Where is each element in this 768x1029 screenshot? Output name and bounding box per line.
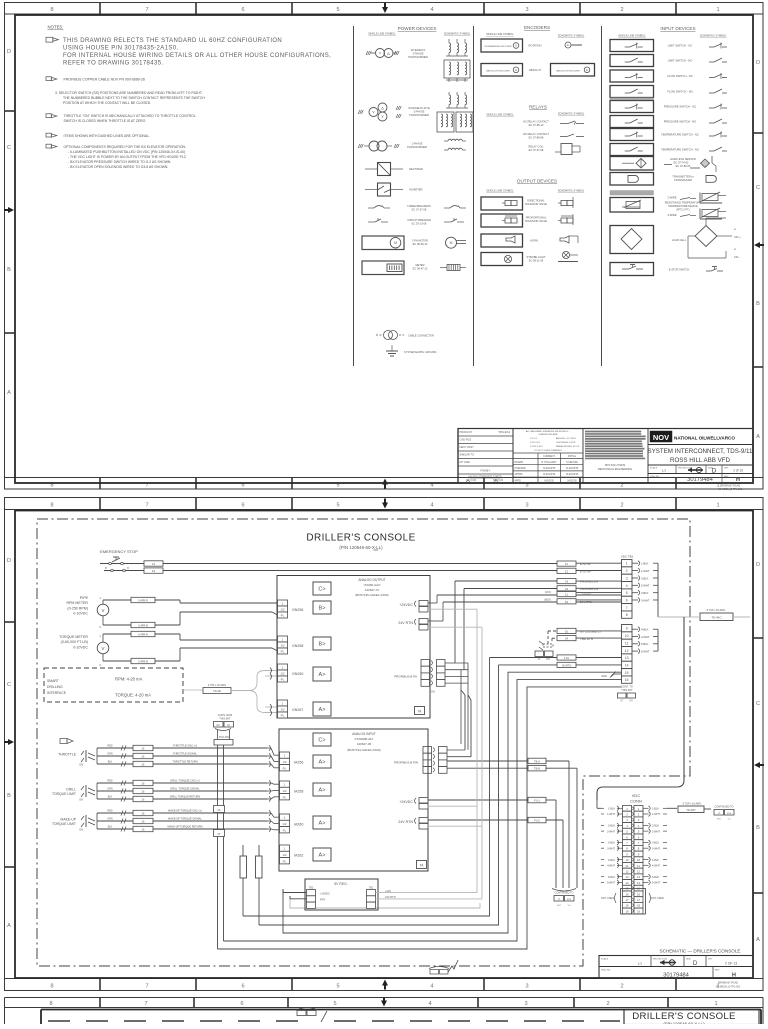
svg-text:CIRCUIT BREAKER: CIRCUIT BREAKER	[407, 218, 431, 222]
svg-text:2: 2	[626, 569, 628, 573]
svg-text:BX CLOSED LT: BX CLOSED LT	[580, 629, 601, 633]
svg-text:1-WHT: 1-WHT	[652, 813, 660, 816]
svg-text:A>: A>	[319, 707, 326, 713]
svg-text:SHT: SHT	[557, 905, 562, 907]
svg-text:10: 10	[565, 629, 569, 633]
svg-text:7: 7	[144, 1001, 147, 1007]
svg-text:EC 08-11-08: EC 08-11-08	[529, 259, 544, 263]
svg-text:1/2: 1/2	[280, 672, 285, 676]
svg-text:REV: REV	[724, 476, 729, 478]
svg-text:12: 12	[625, 649, 629, 653]
svg-text:11: 11	[625, 641, 629, 645]
svg-text:THIS DRAWING RELECTS THE S: THIS DRAWING RELECTS THE STANDARD UL 60H…	[63, 38, 282, 44]
svg-text:5-WHT: 5-WHT	[652, 882, 660, 885]
svg-text:ITEMS SHOWN WITH DASHED LI: ITEMS SHOWN WITH DASHED LINES ARE OPTION…	[64, 134, 151, 138]
svg-text:BLK: BLK	[108, 761, 113, 764]
svg-text:PL: PL	[283, 766, 287, 770]
svg-text:TD-4D: TD-4D	[213, 689, 221, 693]
svg-text:EC 09-47-12: EC 09-47-12	[413, 267, 428, 271]
svg-text:12: 12	[637, 870, 641, 874]
svg-text:+24VDC: +24VDC	[399, 800, 413, 804]
svg-text:1: 1	[716, 7, 719, 13]
svg-text:ABSOLUTE ENCODER: ABSOLUTE ENCODER	[486, 70, 510, 73]
svg-text:E-STOP: E-STOP	[580, 562, 591, 566]
svg-text:M: M	[450, 241, 453, 245]
svg-text:PRESSURE SWITCH - NC: PRESSURE SWITCH - NC	[664, 105, 696, 109]
svg-text:Y: Y	[381, 114, 384, 119]
svg-text:DRILL TORQUE SIGNAL: DRILL TORQUE SIGNAL	[170, 786, 200, 790]
svg-text:11: 11	[637, 864, 640, 868]
svg-text:THREE BREAKERS: THREE BREAKERS	[407, 204, 431, 208]
svg-text:PL: PL	[281, 614, 285, 618]
svg-text:3-BLK: 3-BLK	[652, 842, 659, 845]
svg-text:8: 8	[50, 7, 53, 13]
svg-text:1-WHT: 1-WHT	[607, 813, 615, 816]
svg-text:PL: PL	[283, 859, 287, 863]
svg-text:PROFIBUS B PA: PROFIBUS B PA	[394, 675, 417, 679]
svg-text:PDS SOLUTIONS: PDS SOLUTIONS	[605, 464, 626, 467]
svg-text:10: 10	[637, 858, 641, 862]
svg-text:4-BLK: 4-BLK	[608, 859, 615, 862]
svg-text:5V REG.: 5V REG.	[334, 882, 347, 886]
svg-text:4-WHT: 4-WHT	[607, 865, 615, 868]
svg-text:4: 4	[430, 984, 433, 990]
svg-text:5 TSP x 18 AWG: 5 TSP x 18 AWG	[683, 803, 702, 806]
svg-text:11: 11	[565, 593, 568, 597]
svg-text:3: 3	[525, 984, 528, 990]
svg-text:THIS SHT: THIS SHT	[219, 718, 231, 721]
svg-text:PL: PL	[281, 714, 285, 718]
svg-text:R. HOLLADAY: R. HOLLADAY	[541, 461, 556, 464]
svg-text:5-WHT: 5-WHT	[641, 649, 650, 653]
svg-text:THROTTLE "ON" SWITCH IS ME: THROTTLE "ON" SWITCH IS MECHANICALLY ATT…	[64, 114, 197, 118]
svg-text:5-WHT: 5-WHT	[607, 882, 615, 885]
svg-text:+24VDC: +24VDC	[580, 593, 592, 597]
svg-text:B: B	[756, 825, 760, 831]
svg-text:DRILL: DRILL	[66, 787, 76, 791]
svg-text:FDS: FDS	[727, 813, 732, 815]
svg-text:- BX ELEVATOR PRESSURE SWI: - BX ELEVATOR PRESSURE SWITCH WIRED TO G…	[68, 160, 171, 164]
svg-text:3-BLK: 3-BLK	[641, 591, 649, 595]
svg-text:2T: 2T	[217, 832, 220, 836]
svg-text:DO NOT SCALE DRAWING: DO NOT SCALE DRAWING	[534, 449, 562, 452]
svg-text:- BX ELEVATOR OPEN SOLENOI: - BX ELEVATOR OPEN SOLENOID WIRED TO G3.…	[68, 165, 168, 169]
svg-text:S.CEKODA: S.CEKODA	[566, 461, 578, 464]
svg-text:GRN: GRN	[107, 818, 113, 821]
svg-text:OA: OA	[216, 724, 220, 727]
svg-text:PL: PL	[283, 795, 287, 799]
svg-text:EC 07-58-10: EC 07-58-10	[529, 123, 544, 127]
svg-text:+10VDC: +10VDC	[320, 892, 330, 896]
svg-text:A: A	[7, 390, 11, 396]
svg-text:RTN: RTN	[320, 898, 325, 902]
svg-text:DRILLER'S CONSOLE: DRILLER'S CONSOLE	[306, 533, 415, 544]
svg-text:PIPE: PIPE	[80, 596, 89, 600]
svg-text:SWITCH IS CLOSED WHEN THRO: SWITCH IS CLOSED WHEN THROTTLE IS AT ZER…	[64, 119, 147, 123]
svg-text:SHT: SHT	[724, 468, 729, 470]
svg-text:GN256: GN256	[292, 608, 303, 612]
svg-text:18: 18	[637, 904, 641, 908]
svg-text:IA258: IA258	[294, 790, 303, 794]
svg-text:REV: REV	[715, 970, 720, 972]
svg-text:1/2: 1/2	[280, 708, 285, 712]
svg-text:TDS-9/11: TDS-9/11	[498, 430, 510, 434]
svg-text:B>: B>	[319, 642, 326, 648]
svg-text:EC 07-37-08: EC 07-37-08	[529, 148, 544, 152]
svg-text:(RTD 2 PT): (RTD 2 PT)	[676, 208, 689, 212]
svg-text:EC 07-27-08: EC 07-27-08	[412, 208, 427, 212]
svg-text:A: A	[7, 923, 11, 929]
svg-text:EC 07-89-06: EC 07-89-06	[676, 164, 691, 168]
svg-text:D: D	[756, 562, 760, 568]
svg-text:NOT USED: NOT USED	[601, 897, 614, 900]
svg-text:18: 18	[625, 904, 629, 908]
svg-text:SCHEMATIC SYMBOL: SCHEMATIC SYMBOL	[558, 189, 585, 193]
svg-text:Δ: Δ	[381, 105, 384, 110]
svg-text:14: 14	[625, 881, 629, 885]
svg-text:TEMPERATURE SWITCH - NC: TEMPERATURE SWITCH - NC	[661, 133, 699, 137]
svg-text:PRODUCT: PRODUCT	[460, 430, 473, 434]
svg-text:VDC: VDC	[632, 793, 641, 798]
svg-text:USING HOUSE P/N 30178435-2A: USING HOUSE P/N 30178435-2A1S0.	[63, 46, 179, 52]
svg-text:DIRECTIONAL: DIRECTIONAL	[527, 199, 545, 203]
svg-text:FINISH: FINISH	[480, 469, 489, 473]
svg-text:CONN: CONN	[630, 799, 642, 804]
svg-text:6: 6	[626, 598, 628, 602]
svg-text:Δ: Δ	[387, 51, 390, 56]
svg-text:1/2: 1/2	[282, 760, 287, 764]
svg-text:5: 5	[336, 503, 339, 509]
svg-text:D: D	[756, 60, 760, 66]
svg-text:TORQUE: 4-20 mA: TORQUE: 4-20 mA	[115, 693, 151, 698]
svg-text:IA256: IA256	[294, 761, 303, 765]
svg-text:(P/N 120546-60-X-LL): (P/N 120546-60-X-LL)	[339, 545, 383, 550]
svg-text:5: 5	[333, 1001, 336, 1007]
svg-text:RELAY COIL: RELAY COIL	[528, 145, 544, 149]
svg-text:13: 13	[625, 875, 629, 879]
svg-text:7: 7	[145, 7, 148, 13]
svg-text:3-WHT: 3-WHT	[641, 598, 650, 602]
svg-text:5-BLK: 5-BLK	[652, 876, 659, 879]
svg-text:C: C	[756, 701, 760, 707]
svg-text:TORQUE METER: TORQUE METER	[59, 635, 88, 639]
svg-text:M: M	[394, 241, 397, 245]
svg-text:MY LINE: MY LINE	[460, 460, 471, 464]
svg-text:EC 07-74-02: EC 07-74-02	[674, 161, 689, 165]
svg-text:(0-60,000 FT-LB): (0-60,000 FT-LB)	[61, 640, 88, 644]
svg-text:TB1: TB1	[369, 887, 374, 890]
svg-text:POWER DEVICES: POWER DEVICES	[398, 26, 437, 31]
svg-text:10: 10	[625, 634, 629, 638]
svg-text:CONTINUED TO: CONTINUED TO	[715, 806, 734, 809]
svg-text:B: B	[7, 793, 11, 799]
svg-text:7: 7	[145, 984, 148, 990]
svg-text:VDC TB1: VDC TB1	[621, 555, 634, 559]
svg-text:1-BLK: 1-BLK	[641, 562, 649, 566]
svg-text:2A: 2A	[227, 724, 230, 727]
svg-text:16: 16	[637, 892, 641, 896]
svg-text:3-WHT: 3-WHT	[652, 847, 660, 850]
svg-text:THICKNESS 0.STR: THICKNESS 0.STR	[556, 442, 576, 444]
svg-text:2A: 2A	[217, 808, 220, 812]
svg-text:E-STOP SWITCH: E-STOP SWITCH	[669, 268, 690, 272]
svg-text:H: H	[732, 973, 736, 979]
svg-text:SCHEMATIC SYMBOL: SCHEMATIC SYMBOL	[700, 34, 727, 38]
svg-text:ON: ON	[79, 763, 83, 767]
svg-text:DRILL TORQUE CNC (+): DRILL TORQUE CNC (+)	[170, 778, 199, 782]
svg-text:RESISTANCE TEMPERATURE: RESISTANCE TEMPERATURE	[665, 201, 702, 205]
svg-text:DWG NO.: DWG NO.	[650, 476, 660, 478]
svg-text:RED: RED	[107, 745, 112, 748]
svg-text:SINGLE LINE SYMBOL: SINGLE LINE SYMBOL	[618, 34, 646, 38]
svg-text:INVERTER: INVERTER	[409, 188, 422, 192]
svg-text:B: B	[7, 267, 11, 273]
svg-text:D: D	[693, 961, 698, 967]
svg-text:RELAYS: RELAYS	[529, 105, 547, 110]
svg-text:GRN: GRN	[107, 753, 113, 756]
svg-text:ABSOLUTE ENCODER: ABSOLUTE ENCODER	[556, 70, 580, 73]
svg-text:SCHEMATIC SYMBOL: SCHEMATIC SYMBOL	[558, 112, 585, 116]
svg-text:Y: Y	[379, 51, 382, 56]
svg-text:17A: 17A	[564, 656, 569, 660]
svg-text:STROBE LIGHT: STROBE LIGHT	[526, 255, 545, 259]
svg-text:120627-45: 120627-45	[357, 742, 372, 746]
svg-text:ROSS HILL ABB VFD: ROSS HILL ABB VFD	[670, 457, 730, 464]
svg-text:2-BLK: 2-BLK	[652, 825, 659, 828]
svg-text:REFER TO DRAWING 30178435.: REFER TO DRAWING 30178435.	[63, 61, 163, 67]
svg-text:(BC57134-CHFE1-0X00): (BC57134-CHFE1-0X00)	[347, 748, 380, 752]
svg-text:5-BLK: 5-BLK	[608, 876, 615, 879]
svg-text:TD-4KC: TD-4KC	[711, 616, 721, 620]
svg-text:DRAWN: DRAWN	[515, 461, 524, 464]
svg-text:TRANSFORMER: TRANSFORMER	[407, 145, 427, 149]
svg-text:12: 12	[152, 569, 156, 573]
svg-text:1-WHT: 1-WHT	[641, 569, 650, 573]
svg-text:INCREMENTAL ENCODER: INCREMENTAL ENCODER	[485, 45, 512, 48]
svg-text:- ILLUMINATED PUSHBUTTON IN: - ILLUMINATED PUSHBUTTON INSTALLED ON VD…	[68, 150, 185, 154]
svg-text:HS-WECH_D-TPL-001: HS-WECH_D-TPL-001	[716, 986, 741, 989]
svg-text:1 PHASE: 1 PHASE	[412, 142, 423, 146]
svg-text:1/2: 1/2	[280, 644, 285, 648]
svg-text:6: 6	[240, 1001, 243, 1007]
svg-text:PL: PL	[283, 828, 287, 832]
svg-text:A: A	[734, 247, 736, 251]
svg-text:E: E	[515, 68, 517, 72]
svg-text:3-WIRE: 3-WIRE	[667, 213, 676, 217]
svg-text:LOAD CELL: LOAD CELL	[672, 238, 687, 242]
svg-text:OPTIONAL COMPONENTS REQUIRED: OPTIONAL COMPONENTS REQUIRED FOR THE BX …	[64, 145, 186, 149]
svg-text:NEXT ASSY: NEXT ASSY	[460, 445, 475, 449]
svg-text:(GN): (GN)	[429, 690, 435, 694]
svg-text:SIG -: SIG -	[734, 255, 740, 259]
svg-text:ON: ON	[629, 701, 633, 703]
svg-text:X.X 0.1: X.X 0.1	[530, 438, 538, 440]
svg-text:TRANSMITTER or: TRANSMITTER or	[672, 175, 694, 179]
svg-text:11: 11	[565, 562, 568, 566]
svg-text:4: 4	[428, 1001, 431, 1007]
svg-text:E: E	[515, 44, 517, 48]
svg-text:ENCODERS: ENCODERS	[524, 25, 550, 30]
svg-text:SCHEMATIC — DRILLER'S CONSO: SCHEMATIC — DRILLER'S CONSOLE	[660, 949, 741, 954]
svg-text:IA260: IA260	[294, 823, 303, 827]
svg-text:SHT: SHT	[717, 819, 722, 821]
svg-text:X.XXX 0.010: X.XXX 0.010	[530, 446, 543, 448]
svg-text:NO RELAY CONTACT: NO RELAY CONTACT	[523, 132, 549, 136]
svg-text:UNLESS OTHERWISE STATED: UNLESS OTHERWISE STATED	[468, 476, 501, 479]
svg-text:12: 12	[565, 569, 569, 573]
svg-text:C>: C>	[318, 587, 325, 593]
svg-text:EC 03-13-08: EC 03-13-08	[412, 222, 427, 226]
svg-text:A: A	[734, 227, 736, 231]
svg-text:EC 07-88-08: EC 07-88-08	[529, 136, 544, 140]
svg-text:NOT USED: NOT USED	[651, 897, 664, 900]
svg-text:1/2: 1/2	[282, 853, 287, 857]
svg-text:30179484: 30179484	[687, 477, 714, 483]
svg-text:NC RELAY CONTACT: NC RELAY CONTACT	[523, 120, 549, 124]
svg-text:3 PH MOTOR: 3 PH MOTOR	[412, 239, 428, 243]
svg-text:FT2000B-4A7: FT2000B-4A7	[355, 737, 374, 741]
svg-text:DRILLING: DRILLING	[47, 685, 63, 689]
svg-text:24V RTN: 24V RTN	[580, 600, 592, 604]
svg-text:3 PHASE: 3 PHASE	[413, 52, 424, 56]
svg-text:4-BLK: 4-BLK	[641, 628, 649, 632]
svg-text:DRAWN BY RCAD: DRAWN BY RCAD	[718, 982, 738, 985]
svg-text:DRILL TORQUE RETURN: DRILL TORQUE RETURN	[170, 794, 201, 798]
svg-text:2: 2	[620, 503, 623, 509]
svg-text:TB-A: TB-A	[534, 760, 540, 764]
svg-text:HS-WECH_D-TPL-001: HS-WECH_D-TPL-001	[718, 488, 743, 491]
svg-text:A>: A>	[319, 788, 326, 794]
svg-text:TB2: TB2	[309, 887, 314, 890]
svg-text:3 PHASE: 3 PHASE	[414, 110, 425, 114]
svg-text:8: 8	[50, 503, 53, 509]
svg-text:(BC57135-CHFE1-0X00): (BC57135-CHFE1-0X00)	[355, 593, 388, 597]
svg-text:SOLENOID VALVE: SOLENOID VALVE	[525, 219, 547, 223]
svg-text:9: 9	[626, 627, 628, 631]
svg-text:15: 15	[625, 671, 629, 675]
svg-text:THROTTLE SIGNAL: THROTTLE SIGNAL	[173, 751, 197, 755]
svg-text:3-BLK: 3-BLK	[608, 842, 615, 845]
svg-text:SYSTEM INTERCONNECT, TDS-9/1: SYSTEM INTERCONNECT, TDS-9/11	[648, 448, 754, 455]
svg-text:A>: A>	[319, 760, 326, 766]
svg-text:17: 17	[625, 898, 629, 902]
svg-text:TB-B: TB-B	[534, 767, 540, 771]
svg-text:C: C	[7, 145, 11, 151]
svg-text:ON: ON	[79, 798, 83, 802]
svg-text:X.XX 0.02: X.XX 0.02	[530, 442, 541, 444]
svg-text:FLOW SWITCH - NC: FLOW SWITCH - NC	[667, 74, 692, 78]
svg-text:TRANSFORMER: TRANSFORMER	[408, 55, 428, 59]
svg-text:TRANSFORMER: TRANSFORMER	[409, 113, 429, 117]
svg-text:GN RTN: GN RTN	[562, 664, 572, 667]
svg-text:0.4FR-R: 0.4FR-R	[138, 632, 148, 636]
svg-text:2-BLK: 2-BLK	[641, 576, 649, 580]
svg-text:8: 8	[626, 613, 628, 617]
svg-text:+24VDC: +24VDC	[399, 603, 413, 607]
svg-text:ABSOLUT: ABSOLUT	[529, 68, 542, 72]
svg-text:14: 14	[637, 881, 641, 885]
svg-text:SINGLE LINE SYMBOL: SINGLE LINE SYMBOL	[486, 189, 514, 193]
svg-text:ANALOG OUTPUT: ANALOG OUTPUT	[358, 578, 385, 582]
svg-text:FOR INTERNAL HOUSE WIRING: FOR INTERNAL HOUSE WIRING DETAILS OR ALL…	[63, 53, 331, 59]
svg-text:B>: B>	[319, 606, 326, 612]
svg-text:2-BLK: 2-BLK	[608, 825, 615, 828]
svg-text:5: 5	[336, 7, 339, 13]
svg-text:(VIO): (VIO)	[545, 590, 551, 594]
svg-text:2-WIRE: 2-WIRE	[667, 196, 676, 200]
svg-text:SIG +: SIG +	[734, 235, 741, 239]
svg-text:A>: A>	[319, 853, 326, 859]
svg-text:V: V	[102, 646, 105, 651]
svg-text:SOLENOID VALVE: SOLENOID VALVE	[525, 202, 547, 206]
svg-text:4: 4	[626, 584, 628, 588]
svg-text:0-10VDC: 0-10VDC	[73, 612, 88, 616]
svg-text:JA 04/23/'05: JA 04/23/'05	[543, 467, 556, 470]
svg-text:1/1: 1/1	[662, 469, 667, 473]
svg-text:THE NUMBERED BUBBLE NEXT T: THE NUMBERED BUBBLE NEXT TO THE SWITCH C…	[63, 96, 205, 100]
svg-text:DIMENSIONS ARE: DIMENSIONS ARE	[539, 433, 558, 436]
svg-text:RED: RED	[107, 810, 112, 813]
svg-text:GND: GND	[601, 674, 607, 678]
svg-text:MAKE-UP TORQUE CNC (+): MAKE-UP TORQUE CNC (+)	[168, 808, 202, 812]
svg-text:17: 17	[637, 898, 641, 902]
svg-text:JA 04/23/'05: JA 04/23/'05	[566, 467, 579, 470]
svg-text:4-BLK: 4-BLK	[652, 859, 659, 862]
svg-text:120627-47: 120627-47	[365, 588, 380, 592]
svg-text:6: 6	[241, 503, 244, 509]
svg-text:JA 04/23/'05: JA 04/23/'05	[566, 473, 579, 476]
svg-text:GN267: GN267	[292, 708, 303, 712]
svg-text:A>: A>	[319, 821, 326, 827]
svg-text:SCALE: SCALE	[650, 467, 658, 470]
svg-text:RECTIFIER: RECTIFIER	[409, 167, 423, 171]
svg-text:NATIONAL OILWELLVARCO: NATIONAL OILWELLVARCO	[674, 436, 735, 441]
svg-text:SCALE: SCALE	[601, 958, 609, 961]
svg-text:GRN: GRN	[107, 788, 113, 791]
svg-text:1/2: 1/2	[282, 822, 287, 826]
svg-text:A: A	[756, 434, 760, 440]
svg-text:SYSTEM EARTH GROUND: SYSTEM EARTH GROUND	[404, 350, 437, 354]
svg-text:2 OF 13: 2 OF 13	[725, 962, 737, 966]
svg-text:16: 16	[565, 600, 569, 604]
svg-text:WYE/DELTA-WYE: WYE/DELTA-WYE	[408, 106, 430, 110]
svg-text:1: 1	[716, 503, 719, 509]
svg-text:ON: ON	[79, 828, 83, 832]
svg-text:14: 14	[625, 663, 629, 667]
svg-text:5: 5	[336, 984, 339, 990]
svg-text:GN260: GN260	[292, 672, 303, 676]
svg-text:0.4FR-R: 0.4FR-R	[138, 598, 148, 602]
svg-text:19: 19	[625, 909, 629, 913]
svg-text:24: 24	[565, 637, 569, 641]
svg-text:TEMPERATURE DEVICE: TEMPERATURE DEVICE	[668, 204, 698, 208]
svg-text:E: E	[586, 68, 588, 72]
svg-text:TEMPERATURE SWITCH - NO: TEMPERATURE SWITCH - NO	[661, 148, 699, 152]
svg-text:ANALOG INPUT: ANALOG INPUT	[352, 732, 376, 736]
svg-text:LIMIT SWITCH - NO: LIMIT SWITCH - NO	[668, 59, 693, 63]
svg-text:PRESSURE SWITCH - NO: PRESSURE SWITCH - NO	[664, 120, 697, 124]
svg-text:TRANSDUCER: TRANSDUCER	[674, 178, 692, 182]
svg-text:3. SELECTOR SWITCH (SS) PO: 3. SELECTOR SWITCH (SS) POSITIONS ARE NU…	[55, 91, 203, 95]
svg-text:SINGLE LINE SYMBOL: SINGLE LINE SYMBOL	[486, 32, 514, 36]
svg-text:THIS SHT: THIS SHT	[621, 689, 633, 692]
svg-text:1-BLK: 1-BLK	[608, 808, 615, 811]
svg-text:0.4FR-B: 0.4FR-B	[138, 659, 148, 663]
svg-text:4-WHT: 4-WHT	[641, 635, 650, 639]
svg-text:C: C	[756, 185, 760, 191]
svg-text:HORN: HORN	[530, 239, 538, 243]
svg-text:15: 15	[565, 587, 569, 591]
